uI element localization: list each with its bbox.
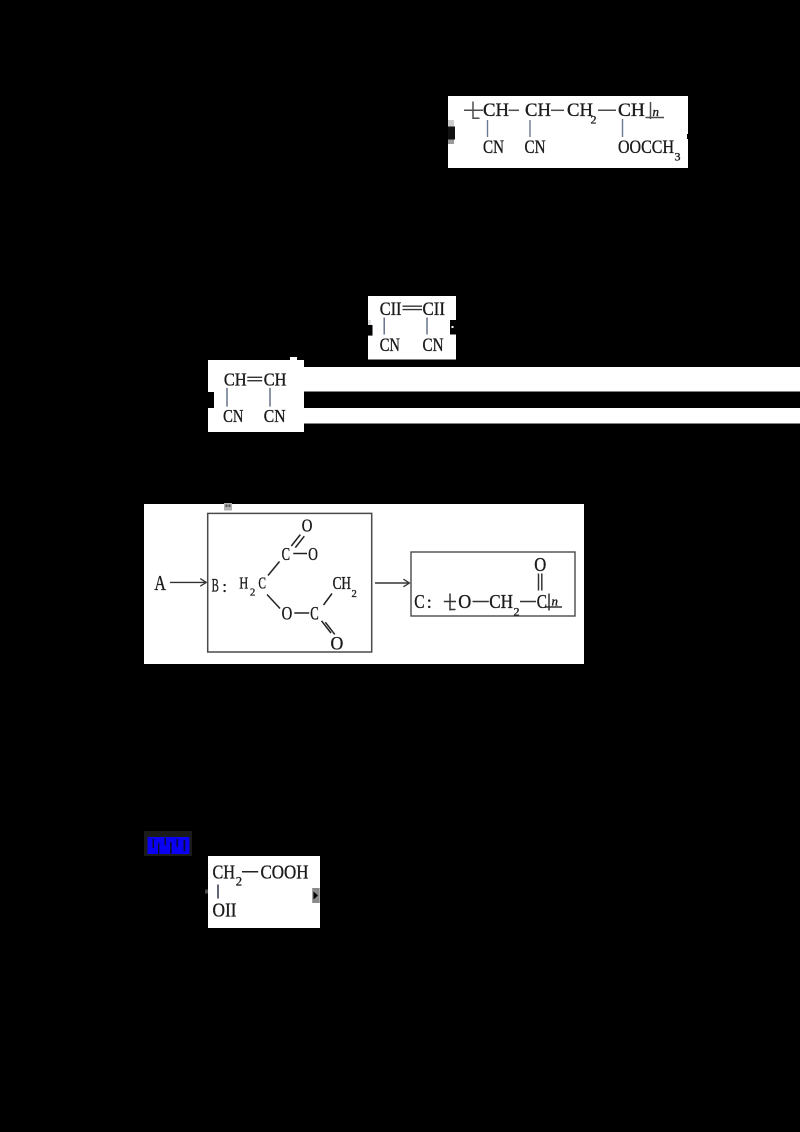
svg-text:O: O bbox=[302, 516, 313, 536]
svg-text:H: H bbox=[239, 573, 248, 592]
svg-text:O: O bbox=[331, 633, 344, 654]
svg-text:O: O bbox=[308, 544, 318, 564]
svg-text:CN: CN bbox=[525, 137, 546, 158]
svg-text:A: A bbox=[154, 571, 166, 595]
svg-text:CH: CH bbox=[567, 100, 593, 121]
svg-text:2: 2 bbox=[352, 589, 357, 600]
svg-text:C: C bbox=[282, 544, 290, 564]
svg-text:3: 3 bbox=[675, 150, 681, 164]
svg-text:C: C bbox=[310, 604, 319, 625]
svg-text:CH: CH bbox=[483, 100, 509, 121]
svg-text:O: O bbox=[282, 604, 293, 625]
svg-text:CH: CH bbox=[224, 370, 247, 390]
svg-text:CII: CII bbox=[423, 299, 446, 320]
svg-text:2: 2 bbox=[250, 587, 255, 598]
svg-text:CN: CN bbox=[483, 137, 504, 158]
svg-text:CH: CH bbox=[525, 100, 551, 121]
svg-text:2: 2 bbox=[236, 875, 242, 889]
svg-text:CN: CN bbox=[380, 335, 401, 356]
svg-text:C: C bbox=[537, 592, 547, 613]
svg-text:2: 2 bbox=[591, 113, 597, 127]
svg-text:C: C bbox=[414, 591, 424, 613]
svg-text::: : bbox=[222, 577, 227, 596]
svg-text:n: n bbox=[552, 594, 559, 609]
svg-text:CN: CN bbox=[264, 406, 286, 426]
svg-text:B: B bbox=[212, 576, 219, 597]
svg-text:n: n bbox=[653, 104, 660, 119]
svg-text:OII: OII bbox=[213, 900, 237, 922]
svg-text:O: O bbox=[458, 592, 471, 613]
svg-text:CN: CN bbox=[423, 335, 444, 356]
svg-text:COOH: COOH bbox=[261, 862, 309, 884]
svg-text:CH: CH bbox=[213, 862, 236, 884]
svg-text:C: C bbox=[258, 574, 266, 593]
svg-text:CH: CH bbox=[489, 592, 513, 613]
svg-text:2: 2 bbox=[514, 605, 520, 619]
svg-text::: : bbox=[427, 592, 432, 612]
svg-text:CH: CH bbox=[264, 370, 287, 390]
svg-text:CH: CH bbox=[333, 573, 352, 593]
svg-text:CH: CH bbox=[618, 100, 645, 121]
svg-text:CN: CN bbox=[223, 406, 243, 426]
svg-text:OOCCH: OOCCH bbox=[618, 137, 674, 158]
svg-text:CII: CII bbox=[380, 299, 402, 320]
svg-text:O: O bbox=[534, 555, 546, 576]
